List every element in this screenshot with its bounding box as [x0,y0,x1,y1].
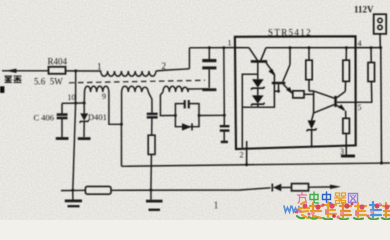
node loop right [198,114,201,117]
node loop left [174,114,177,117]
node cap224 top [223,114,226,117]
transformer T primary winding 1-2 [101,71,156,76]
zener box [242,74,274,148]
wire R404 to winding [66,70,102,72]
watermark row2 fancy glyph 7 (right edge) [382,203,390,219]
terminal circle bottom [378,25,382,29]
wire up to rail [223,48,226,116]
node connector rail [379,46,382,49]
svg-text:C 406: C 406 [34,113,55,123]
wire winding2 to corner [156,69,190,71]
bottom line2 [61,189,85,191]
resistor R-a vertical [306,48,314,91]
transformer secondary winding B [122,86,149,124]
zener D401 [80,103,89,137]
op box STR5412 outline [235,36,356,149]
resistor on line2 [85,186,111,194]
svg-text:STR5412: STR5412 [268,28,312,38]
svg-text:1: 1 [214,201,219,212]
wire cap to resistor [151,118,153,135]
svg-text:112V: 112V [354,5,374,15]
transformer secondary winding 10-9 [85,86,109,92]
connector 112V box [374,14,387,34]
node input blob [0,86,4,93]
wire winding10 lead down [83,92,85,103]
watermark row1 char4 qi (orange) [335,193,346,204]
zener Z2 [251,95,265,107]
watermark row2 fancy glyph 4 [339,203,351,219]
ground D401 [78,137,91,140]
wire loop to cap224 [199,114,224,116]
watermark row2 fancy glyph 5 [354,203,366,219]
capacitor C406 [57,103,68,137]
pin2 lead [246,141,248,165]
watermark row2 fancy glyph 2 [309,203,322,219]
node junction R404 [74,69,77,72]
node Q2 collector rail [289,46,292,49]
svg-text:5: 5 [358,103,362,112]
svg-text:D401: D401 [88,112,107,122]
internal rail pin1-pin4 [235,47,249,49]
arrow input pointing left [6,69,17,73]
ground pin3 [341,155,355,158]
wire input horizontal [2,70,49,72]
svg-text:1: 1 [228,39,232,48]
watermark row1 char1 guang (pink) [298,193,307,204]
transformer secondary winding C [163,86,188,92]
watermark [284,192,390,220]
resistor snubber RB vertical [148,135,155,154]
wire line2 middle [111,188,271,191]
zener Z1 [251,74,265,95]
pin5 lead [337,82,372,103]
ground C406 [56,137,69,140]
wire right vertical down [380,48,383,164]
capacitor in loop (vertical bars) [184,100,186,108]
wire connector down [379,34,381,48]
wire winding9 lead down [109,92,122,124]
svg-text:1: 1 [97,62,102,72]
svg-text:4: 4 [358,39,362,48]
node rail-D401 [83,102,86,105]
wire resistor down to line2 [150,154,153,190]
node rail wire224 [222,46,225,49]
capacitor snubber CB [147,113,158,116]
watermark row2 fancy glyph 3 [323,202,336,220]
wire base node vertical [313,91,315,113]
node line2 left [71,189,74,192]
wire diag to Q3 base top [314,91,335,98]
node right vertical on line1 [380,162,383,165]
capacitor bottom-mid (below line2) [146,190,163,210]
node pin2 on line1 [245,163,248,166]
diode on line2 [272,184,291,192]
diode in loop [182,123,191,130]
wire windingC left lead [160,92,175,116]
transistor Q3 [334,81,346,118]
watermark row1 char5 wang (violet) [349,194,358,203]
loop cap+diode rectangle [175,104,199,127]
transformer core dashed [69,80,205,83]
node R-d rail [345,46,348,49]
wire windingB right lead [148,92,152,113]
capacitor bottom-left (below line2) [65,190,82,206]
zener D (inside IC) [307,113,317,147]
resistor R-d vertical [343,48,350,82]
svg-text:R404: R404 [48,57,68,67]
wire rail y103 [62,102,84,104]
watermark row2 fancy glyph 1 [297,202,309,218]
node winding9/windingB [120,123,123,126]
bar windingC ground [202,88,216,91]
wire to arrow [309,186,335,188]
wire windingC right lead [188,89,209,92]
bottom line1 (pin2 return) [122,163,390,166]
resistor R-b horizontal [293,91,304,98]
label zhengliu (CJK approx) [5,76,22,84]
resistor R404 [49,67,66,74]
transistor Q2 [272,48,293,94]
wire corner up to pin1 rail [188,48,190,69]
arrow right end [330,185,341,189]
watermark www blue [284,206,299,212]
wire main left vertical [73,71,76,190]
node R-a rail [308,46,311,49]
svg-text:2: 2 [240,151,244,160]
node line2 cap [149,189,152,192]
transistor Q1 [249,48,276,76]
capacitor mid (224) [220,115,230,142]
watermark row2 fancy glyph 6 (blue) [369,202,381,219]
svg-text:10: 10 [68,93,76,102]
node R-e rail [370,46,373,49]
svg-text:2: 2 [162,61,167,71]
node rail cap209 [208,46,211,49]
svg-text:9: 9 [102,92,106,101]
resistor R-e external [368,63,375,82]
watermark row1 char2 dian (green) [310,192,319,203]
resistor on line2 right [292,184,309,191]
wire node down to bottom line1 [120,124,122,166]
capacitor top C (to rail) [202,48,216,88]
wire pin1 rail top [189,47,234,49]
node rail-main [74,102,77,105]
watermark row1 char3 dian (blue) [323,192,332,203]
terminal circle top [378,18,382,22]
resistor R-c vertical [343,118,350,154]
wire diag to Q3 base bottom [314,105,335,113]
svg-text:5.6 5W: 5.6 5W [34,77,63,87]
